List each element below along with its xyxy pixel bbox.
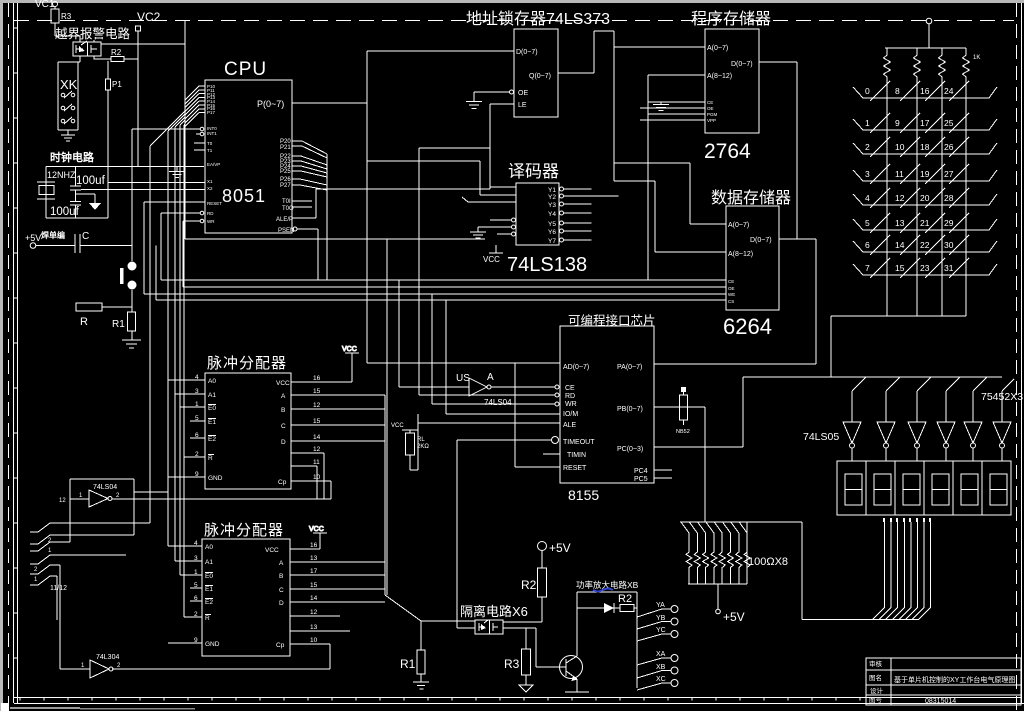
svg-text:+5V: +5V — [25, 233, 41, 243]
svg-text:VCC: VCC — [309, 526, 324, 533]
svg-text:C: C — [82, 231, 89, 242]
svg-text:14: 14 — [310, 595, 318, 602]
svg-text:P21: P21 — [280, 145, 291, 151]
svg-text:16: 16 — [313, 375, 321, 382]
svg-text:Y1: Y1 — [548, 187, 556, 194]
svg-text:P27: P27 — [280, 183, 291, 189]
svg-text:74LS04: 74LS04 — [93, 484, 117, 491]
svg-text:A(8~12): A(8~12) — [728, 251, 753, 258]
svg-text:Y7: Y7 — [548, 238, 556, 245]
svg-text:15: 15 — [313, 388, 321, 395]
svg-text:XK: XK — [60, 77, 78, 92]
svg-text:22: 22 — [920, 240, 930, 250]
svg-text:VCC: VCC — [483, 255, 500, 264]
svg-text:R: R — [80, 316, 88, 328]
svg-text:12: 12 — [59, 498, 66, 504]
svg-text:10: 10 — [895, 142, 905, 152]
svg-text:A: A — [279, 560, 284, 567]
svg-text:16: 16 — [920, 86, 930, 96]
svg-text:13: 13 — [310, 555, 318, 562]
svg-text:74LS138: 74LS138 — [507, 254, 587, 276]
svg-text:1K: 1K — [973, 55, 980, 61]
svg-text:11: 11 — [313, 459, 320, 466]
svg-text:29: 29 — [944, 218, 954, 228]
svg-text:RESET: RESET — [207, 201, 222, 206]
svg-text:译码器: 译码器 — [508, 162, 559, 181]
svg-text:GND: GND — [208, 475, 223, 482]
svg-text:E1: E1 — [205, 586, 213, 593]
svg-text:E0: E0 — [208, 405, 216, 412]
svg-text:CS: CS — [728, 299, 734, 304]
svg-text:US: US — [456, 373, 470, 384]
svg-text:OE: OE — [518, 90, 528, 97]
svg-text:15: 15 — [310, 582, 318, 589]
svg-text:T1: T1 — [207, 148, 213, 153]
svg-text:P25: P25 — [280, 169, 291, 175]
svg-text:基于单片机控制的XY工作台电气原理图: 基于单片机控制的XY工作台电气原理图 — [894, 675, 1015, 684]
svg-text:19: 19 — [920, 169, 930, 179]
svg-text:15: 15 — [895, 263, 905, 273]
svg-text:12: 12 — [313, 402, 321, 409]
svg-text:Cp: Cp — [276, 642, 285, 649]
svg-text:17: 17 — [310, 568, 318, 575]
svg-text:27: 27 — [944, 169, 954, 179]
svg-text:17: 17 — [920, 118, 930, 128]
svg-text:11: 11 — [895, 169, 904, 179]
svg-text:AD(0~7): AD(0~7) — [563, 364, 589, 371]
svg-text:28: 28 — [944, 193, 954, 203]
svg-text:2KΩ: 2KΩ — [417, 444, 429, 450]
svg-text:C: C — [279, 587, 284, 594]
svg-text:PC4: PC4 — [634, 468, 648, 475]
svg-text:74LS05: 74LS05 — [803, 431, 839, 443]
svg-text:E2: E2 — [208, 436, 216, 443]
svg-text:12: 12 — [895, 193, 905, 203]
svg-text:4: 4 — [865, 193, 870, 203]
svg-text:时钟电路: 时钟电路 — [50, 150, 95, 164]
svg-text:8051: 8051 — [222, 186, 266, 206]
svg-text:TIMIN: TIMIN — [567, 452, 586, 459]
svg-text:CE: CE — [707, 100, 713, 105]
svg-text:D(0~7): D(0~7) — [750, 237, 772, 244]
svg-text:YB: YB — [656, 615, 666, 622]
svg-text:2: 2 — [865, 142, 870, 152]
svg-text:LE: LE — [518, 102, 527, 109]
svg-text:ALE/P: ALE/P — [276, 217, 293, 223]
svg-text:TIMEOUT: TIMEOUT — [563, 439, 595, 446]
svg-text:RD: RD — [565, 393, 575, 400]
svg-text:Q(0~7): Q(0~7) — [529, 73, 551, 80]
svg-text:YC: YC — [656, 627, 666, 634]
svg-text:WR: WR — [565, 401, 577, 408]
svg-text:R2: R2 — [111, 48, 122, 57]
svg-text:21: 21 — [920, 218, 930, 228]
svg-text:VC2: VC2 — [137, 10, 161, 24]
svg-text:23: 23 — [920, 263, 930, 273]
svg-text:2764: 2764 — [704, 140, 751, 163]
svg-text:08315014: 08315014 — [925, 698, 956, 705]
svg-text:RD: RD — [207, 211, 214, 216]
svg-text:VCC: VCC — [342, 346, 357, 353]
svg-text:A1: A1 — [208, 392, 216, 399]
svg-text:5: 5 — [865, 218, 870, 228]
svg-text:R1: R1 — [400, 657, 416, 671]
svg-text:16: 16 — [310, 542, 318, 549]
svg-text:13: 13 — [895, 218, 905, 228]
svg-text:P1: P1 — [112, 80, 122, 89]
svg-text:越界报警电路: 越界报警电路 — [55, 26, 131, 41]
svg-text:焊单编: 焊单编 — [41, 230, 65, 240]
svg-text:脉冲分配器: 脉冲分配器 — [207, 355, 287, 372]
svg-text:14: 14 — [895, 240, 905, 250]
svg-text:6264: 6264 — [723, 314, 772, 339]
svg-text:11/12: 11/12 — [50, 585, 67, 592]
svg-text:E2: E2 — [205, 599, 213, 606]
svg-text:E1: E1 — [208, 419, 216, 426]
svg-text:8155: 8155 — [568, 487, 599, 503]
svg-text:1: 1 — [865, 118, 870, 128]
svg-text:YA: YA — [656, 602, 665, 609]
svg-text:R3: R3 — [61, 12, 72, 21]
svg-text:Y4: Y4 — [548, 211, 556, 218]
svg-text:X2: X2 — [207, 186, 213, 191]
svg-text:审核: 审核 — [869, 659, 883, 668]
svg-text:3: 3 — [865, 169, 870, 179]
svg-text:RL: RL — [417, 437, 425, 443]
svg-text:15: 15 — [313, 418, 321, 425]
svg-text:B: B — [279, 573, 283, 580]
svg-text:T0: T0 — [207, 141, 213, 146]
svg-text:13: 13 — [310, 624, 318, 631]
svg-text:A(8~12): A(8~12) — [707, 73, 732, 80]
svg-text:31: 31 — [944, 263, 954, 273]
svg-text:Y6: Y6 — [548, 229, 556, 236]
svg-text:R2: R2 — [521, 578, 537, 592]
svg-text:Y5: Y5 — [548, 221, 556, 228]
svg-text:10: 10 — [310, 637, 318, 644]
svg-text:脉冲分配器: 脉冲分配器 — [204, 522, 284, 539]
svg-text:100uf: 100uf — [50, 206, 80, 218]
svg-text:R: R — [205, 615, 210, 622]
svg-text:IO/M: IO/M — [563, 411, 578, 418]
svg-text:A0: A0 — [208, 378, 216, 385]
svg-text:12: 12 — [313, 446, 321, 453]
svg-text:VCC: VCC — [265, 547, 279, 554]
svg-text:D(0~7): D(0~7) — [516, 49, 538, 56]
svg-text:D: D — [279, 600, 284, 607]
svg-text:XA: XA — [656, 651, 666, 658]
svg-text:程序存储器: 程序存储器 — [691, 10, 771, 28]
svg-text:A: A — [281, 393, 286, 400]
svg-text:设计: 设计 — [870, 686, 884, 695]
svg-text:18: 18 — [920, 142, 930, 152]
svg-text:图号: 图号 — [869, 696, 883, 704]
svg-text:30: 30 — [944, 240, 954, 250]
svg-text:VPP: VPP — [707, 118, 716, 123]
svg-text:隔离电路X6: 隔离电路X6 — [460, 604, 528, 619]
svg-text:CE: CE — [728, 279, 734, 284]
svg-text:PSEN: PSEN — [278, 228, 294, 234]
svg-text:R: R — [208, 455, 213, 462]
svg-text:PA(0~7): PA(0~7) — [617, 364, 642, 371]
svg-text:CPU: CPU — [224, 59, 267, 80]
svg-text:100ΩX8: 100ΩX8 — [748, 556, 788, 568]
svg-text:P(0~7): P(0~7) — [257, 99, 284, 109]
svg-text:R1: R1 — [112, 319, 125, 330]
svg-text:12NHZ: 12NHZ — [47, 170, 76, 180]
svg-text:PC(0~3): PC(0~3) — [617, 446, 643, 453]
svg-text:20: 20 — [920, 193, 930, 203]
svg-text:ALE: ALE — [563, 422, 577, 429]
svg-text:+5V: +5V — [549, 541, 571, 555]
svg-text:9: 9 — [895, 118, 900, 128]
svg-text:Cp: Cp — [278, 479, 287, 486]
svg-text:A: A — [487, 372, 494, 383]
svg-text:A(0~7): A(0~7) — [728, 222, 749, 229]
svg-text:PB(0~7): PB(0~7) — [617, 406, 643, 413]
svg-text:7: 7 — [865, 263, 870, 273]
svg-text:EA/VP: EA/VP — [207, 162, 220, 167]
svg-text:74LS04: 74LS04 — [484, 398, 512, 407]
svg-text:GND: GND — [205, 641, 220, 648]
svg-text:12: 12 — [310, 609, 318, 616]
svg-text:25: 25 — [944, 118, 954, 128]
svg-text:X1: X1 — [207, 179, 213, 184]
svg-text:INT1: INT1 — [207, 131, 217, 136]
svg-text:B: B — [281, 407, 285, 414]
svg-text:0: 0 — [865, 86, 870, 96]
svg-text:PC5: PC5 — [634, 476, 648, 483]
svg-text:OE: OE — [707, 106, 714, 111]
svg-text:74L304: 74L304 — [96, 654, 119, 661]
svg-text:CE: CE — [565, 385, 575, 392]
svg-text:RESET: RESET — [563, 465, 587, 472]
svg-text:+5V: +5V — [723, 610, 745, 624]
svg-text:WR: WR — [207, 219, 215, 224]
svg-text:T0I: T0I — [282, 199, 291, 205]
svg-text:PGM: PGM — [707, 112, 718, 117]
svg-text:E0: E0 — [205, 573, 213, 580]
svg-text:D(0~7): D(0~7) — [731, 61, 753, 68]
svg-text:6: 6 — [865, 240, 870, 250]
svg-text:VCC: VCC — [391, 423, 404, 429]
svg-text:XB: XB — [656, 664, 666, 671]
svg-text:XC: XC — [656, 676, 666, 683]
svg-text:Y3: Y3 — [548, 202, 556, 209]
svg-text:OE: OE — [728, 286, 735, 291]
svg-text:VCC: VCC — [276, 380, 290, 387]
svg-text:24: 24 — [944, 86, 954, 96]
svg-text:P17: P17 — [207, 110, 216, 115]
svg-text:图名: 图名 — [869, 673, 882, 682]
svg-text:地址锁存器74LS373: 地址锁存器74LS373 — [466, 10, 610, 28]
svg-text:数据存储器: 数据存储器 — [711, 189, 791, 207]
svg-text:26: 26 — [944, 142, 954, 152]
svg-text:A(0~7): A(0~7) — [707, 45, 728, 52]
svg-text:R2: R2 — [618, 593, 632, 605]
svg-text:14: 14 — [313, 434, 321, 441]
svg-text:Y2: Y2 — [548, 194, 556, 201]
svg-text:8: 8 — [895, 86, 900, 96]
svg-text:D: D — [281, 439, 286, 446]
svg-text:A0: A0 — [205, 544, 213, 551]
svg-text:R3: R3 — [504, 657, 520, 671]
svg-text:100uf: 100uf — [76, 175, 106, 187]
svg-text:WE: WE — [728, 292, 735, 297]
svg-text:NB52: NB52 — [676, 429, 690, 435]
svg-text:A1: A1 — [205, 559, 213, 566]
svg-text:C: C — [281, 423, 286, 430]
